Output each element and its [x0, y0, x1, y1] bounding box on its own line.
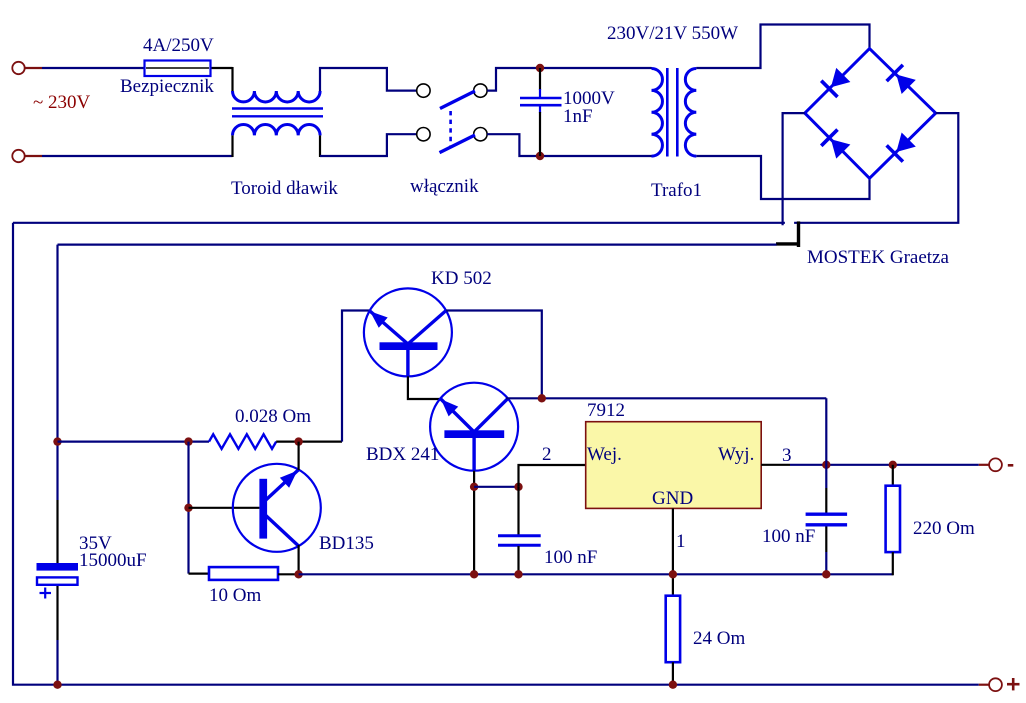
terminal output minus: [989, 458, 1002, 471]
regulator U1 7912 body: [586, 422, 762, 509]
wire bridge left vertex to plus bus: [783, 113, 805, 225]
fuse F1 4A/250V: [145, 61, 233, 77]
node dot rail BDX: [470, 570, 478, 578]
label plus polarity C2: [40, 588, 52, 599]
wire toroid top out: [320, 68, 417, 91]
wire switch TR to cap node: [487, 68, 651, 91]
wire BDX emitter down: [473, 471, 475, 575]
capacitor C1 1nF leads: [539, 68, 541, 156]
resistor R2 10 Om: [209, 567, 278, 580]
wire zigzag to collector node: [276, 441, 342, 443]
switch link dashed: [449, 111, 452, 146]
label plus sign: [1007, 678, 1020, 690]
transistor Q2 KD502: [364, 288, 452, 376]
capacitor C1 plates: [520, 98, 562, 105]
diode D2 top-right: [887, 65, 917, 95]
wire bridge right vertex down: [794, 113, 958, 223]
node dot emitter rail: [294, 570, 302, 578]
node dot GND rail: [669, 570, 677, 578]
capacitor C2 35V 15000uF top plate: [37, 563, 79, 571]
resistor R3 24 Om: [666, 596, 680, 663]
inductor toroid top winding: [233, 91, 321, 102]
wire 220 Om bottom: [892, 552, 894, 575]
svg-text:220 Om: 220 Om: [913, 518, 975, 539]
svg-text:Toroid dławik: Toroid dławik: [231, 178, 338, 199]
wire rail up to KD502 emitter: [342, 311, 369, 442]
terminal input L (bottom): [12, 150, 24, 162]
wire riser fuse to toroid top coil: [231, 67, 233, 91]
resistor R1 0.028 Om zigzag: [209, 434, 276, 449]
svg-text:włącznik: włącznik: [410, 176, 479, 197]
terminal output plus: [989, 678, 1002, 691]
node dot collector rail: [538, 394, 546, 402]
switch contact circle TL: [417, 84, 430, 97]
svg-text:4A/250V: 4A/250V: [143, 35, 214, 56]
diode D3 bottom-left: [821, 130, 851, 160]
svg-text:MOSTEK Graetza: MOSTEK Graetza: [807, 247, 949, 268]
svg-text:0.028 Om: 0.028 Om: [235, 406, 311, 427]
wire base to BD135: [189, 507, 260, 509]
node dot input node: [514, 483, 522, 491]
wire BD135 emitter down: [298, 545, 300, 574]
svg-text:1: 1: [676, 531, 686, 552]
svg-text:24 Om: 24 Om: [693, 628, 745, 649]
transistor Q1 BD135: [233, 464, 321, 552]
svg-text:GND: GND: [652, 488, 693, 509]
svg-text:100 nF: 100 nF: [544, 547, 597, 568]
node dot BDX emitter: [470, 483, 478, 491]
node dot Wyj 220: [889, 461, 897, 469]
svg-text:KD 502: KD 502: [431, 268, 492, 289]
svg-text:10 Om: 10 Om: [209, 585, 261, 606]
wire BD135 collector up: [298, 442, 300, 470]
wire bus plus left vertical: [13, 223, 979, 685]
wire KD502 collector to node: [446, 311, 542, 399]
svg-text:3: 3: [782, 445, 792, 466]
node dot Wyj C4: [822, 461, 830, 469]
svg-text:Wej.: Wej.: [587, 444, 622, 465]
wire bus minus vertical top: [56, 245, 58, 500]
svg-text:Bezpiecznik: Bezpiecznik: [120, 76, 214, 97]
wire L bottom to toroid: [42, 155, 233, 157]
label minus sign: [1008, 464, 1014, 467]
capacitor C2 bottom plate: [37, 577, 78, 584]
wire GND pin down: [672, 508, 674, 596]
node dot plus bus cap: [53, 681, 61, 689]
capacitor C3 100nF plates: [498, 536, 541, 546]
diode D4 bottom-right: [887, 131, 917, 161]
svg-text:1nF: 1nF: [563, 106, 593, 127]
node dot minus bus at 0.028 rail: [53, 437, 61, 445]
node dot plus bus 24 Om: [669, 681, 677, 689]
capacitor C4 100nF plates: [806, 514, 848, 525]
svg-text:7912: 7912: [587, 400, 625, 421]
svg-text:230V/21V 550W: 230V/21V 550W: [607, 23, 738, 44]
wire 24 Om to plus bus: [672, 662, 674, 685]
svg-text:Wyj.: Wyj.: [718, 444, 754, 465]
wire switch BR to cap node: [487, 134, 651, 156]
wire secondary top to bridge: [696, 25, 869, 69]
node dot BD135 collector: [294, 437, 302, 445]
wire L top to fuse: [42, 67, 145, 69]
switch lever bottom: [440, 135, 476, 153]
node dot bottom cap: [536, 152, 544, 160]
transformer T1 core lines: [667, 68, 677, 157]
svg-text:~ 230V: ~ 230V: [33, 92, 91, 113]
wire 10 Om right to rail: [278, 573, 299, 575]
terminal input L (top): [12, 62, 24, 74]
wire 10 Om left: [189, 572, 210, 574]
svg-text:Trafo1: Trafo1: [651, 180, 702, 201]
wire 0.028 rail left: [58, 441, 210, 443]
node dot rail C4: [822, 570, 830, 578]
switch contact circle BL: [417, 128, 430, 141]
wire C4 branch vertical: [825, 398, 827, 574]
svg-text:100 nF: 100 nF: [762, 526, 815, 547]
svg-text:2: 2: [542, 444, 552, 465]
transistor Q3 BDX241: [430, 383, 518, 471]
svg-text:BD135: BD135: [319, 533, 374, 554]
node dot base junction: [184, 504, 192, 512]
svg-text:BDX 241: BDX 241: [366, 444, 439, 465]
transformer T1 primary winding: [652, 69, 663, 157]
node dot top cap: [536, 64, 544, 72]
inductor toroid bottom winding: [233, 124, 321, 135]
wire Wyj pin out: [761, 464, 790, 466]
wire base bus vertical: [187, 442, 189, 574]
bridge rectifier diamond: [805, 49, 936, 179]
wire KD502 emitter down to BDX base: [408, 376, 441, 399]
switch contact circle BR: [474, 128, 487, 141]
wire bus minus vertical bottom: [56, 585, 58, 640]
node dot rail C3: [514, 570, 522, 578]
switch lever top: [440, 91, 475, 109]
junction thick black elbow: [776, 221, 800, 247]
node dot rail at base bus: [184, 437, 192, 445]
transformer T1 secondary winding: [685, 69, 696, 157]
wire plus rail horizontal: [13, 222, 785, 224]
resistor R4 220 Om: [886, 486, 900, 552]
wire minus rail horizontal: [58, 244, 777, 246]
wire emitter to input node: [474, 486, 518, 488]
wire secondary bottom to bridge: [696, 156, 869, 199]
wire 220 Om top: [892, 465, 894, 486]
svg-text:15000uF: 15000uF: [79, 550, 147, 571]
wire red stub top: [25, 67, 43, 69]
wire input node to Wej pin: [519, 465, 586, 487]
wire BDX collector rail: [506, 397, 826, 399]
switch contact circle TR: [474, 84, 487, 97]
wire input node down to C3: [517, 487, 519, 535]
diode D1 top-left: [821, 67, 851, 97]
toroid core lines: [232, 109, 323, 117]
wire ground rail: [299, 573, 893, 575]
wire toroid bottom out: [320, 134, 417, 156]
wire C3 down to rail: [517, 546, 519, 574]
wire red stub bottom: [25, 155, 43, 157]
